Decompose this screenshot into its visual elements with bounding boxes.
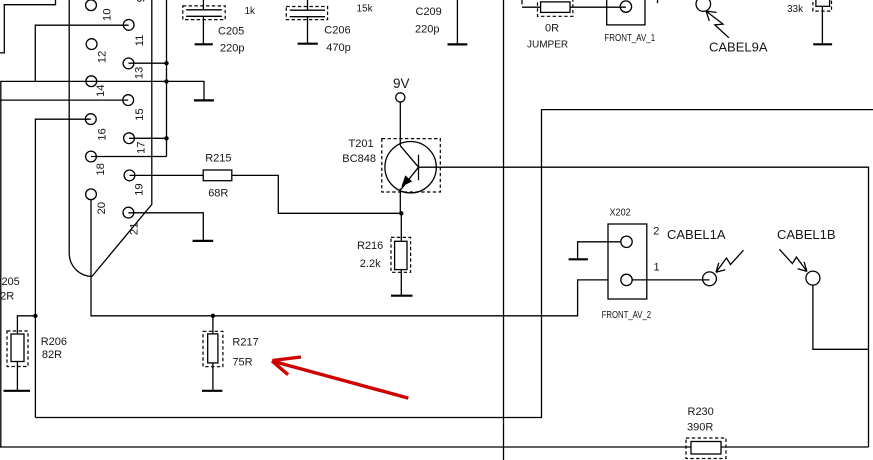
resistor 0R jumper	[541, 2, 570, 13]
svg-text:2.2k: 2.2k	[360, 258, 381, 270]
svg-text:CABEL9A: CABEL9A	[709, 39, 768, 54]
svg-text:20: 20	[96, 202, 108, 215]
wire pin18	[91, 156, 167, 158]
pin 14	[86, 76, 97, 87]
resistor R216	[395, 241, 407, 269]
wire bottom line with R230	[0, 446, 869, 448]
wire top-left step (cut at top and left edges)	[0, 0, 56, 53]
wire bottom rail / big loop to top right	[35, 110, 873, 418]
wire C209 to ground (cap cut off above)	[456, 0, 458, 44]
svg-text:19: 19	[134, 183, 146, 196]
svg-text:16: 16	[96, 128, 108, 141]
svg-text:470p: 470p	[326, 42, 350, 54]
svg-text:11: 11	[134, 35, 146, 47]
junction dot (pin17/x166)	[164, 136, 168, 140]
svg-text:JUMPER: JUMPER	[527, 40, 568, 51]
transistor T201 emitter segment	[401, 167, 419, 189]
svg-text:13: 13	[133, 67, 145, 80]
wire stub right of FRONT_AV_1 (cut)	[657, 0, 659, 3]
ground bar (X202 pin2)	[569, 258, 588, 260]
junction dot (pin13/x166)	[164, 61, 168, 65]
wire X202 pin2 to ground	[578, 242, 621, 259]
svg-text:82R: 82R	[42, 349, 62, 361]
junction dot (R206 tap)	[33, 314, 37, 318]
CABEL1A bolt arrow	[716, 250, 744, 272]
svg-text:390R: 390R	[687, 422, 713, 434]
svg-text:FRONT_AV_2: FRONT_AV_2	[602, 310, 652, 321]
pin 18	[86, 151, 97, 162]
svg-text:15: 15	[134, 108, 146, 121]
svg-text:BC848: BC848	[342, 153, 376, 165]
junction dot (pin14 net/x166)	[164, 79, 168, 83]
ground bar (R217)	[202, 390, 222, 392]
resistor R215	[203, 170, 232, 181]
CABEL9A terminal circle (cut at top)	[696, 0, 711, 11]
wire vertical net V1 (full height, cut by crop)	[503, 0, 505, 460]
svg-text:9: 9	[135, 0, 147, 2]
svg-text:C206: C206	[324, 25, 350, 37]
svg-text:220p: 220p	[220, 43, 244, 55]
wire into 0R jumper	[522, 6, 541, 8]
ground bar (C205)	[195, 43, 213, 45]
svg-text:14: 14	[95, 84, 107, 97]
resistor R206	[11, 334, 24, 362]
svg-text:R230: R230	[688, 406, 714, 418]
wire R217 top	[212, 316, 214, 334]
wire pin19 to R215	[130, 174, 204, 176]
wire pin17	[129, 137, 167, 139]
svg-text:2: 2	[653, 226, 659, 238]
svg-text:68R: 68R	[208, 187, 228, 199]
wire pin13	[129, 62, 167, 64]
wire CABEL1B down to right loop	[813, 285, 869, 349]
svg-text:X202: X202	[610, 208, 632, 219]
SCART connector outline	[69, 0, 152, 276]
junction dot (R217 tap)	[211, 314, 215, 318]
svg-text:FRONT_AV_1: FRONT_AV_1	[604, 33, 655, 44]
X202 pin 1 circle	[621, 274, 632, 285]
svg-text:CABEL1B: CABEL1B	[777, 227, 836, 242]
wire R217 to ground	[212, 363, 214, 390]
wire 0R to FRONT_AV_1	[570, 6, 626, 8]
transistor T201 dashed box	[382, 139, 441, 192]
svg-text:12: 12	[96, 51, 108, 64]
wire R206 to ground	[16, 362, 18, 391]
svg-text:C209: C209	[416, 6, 442, 18]
transistor T201 circle	[385, 142, 436, 193]
supply 9V terminal	[396, 93, 405, 102]
pin 13	[123, 58, 134, 69]
wire 9V to collector	[399, 102, 401, 146]
svg-text:1: 1	[654, 262, 660, 274]
svg-text:21: 21	[128, 223, 140, 236]
wire pin14/ground net horizontal	[1, 81, 204, 100]
pin 12	[86, 39, 97, 50]
pin 11	[123, 20, 134, 31]
svg-text:R216: R216	[357, 240, 383, 252]
svg-text:0R: 0R	[545, 23, 559, 35]
wire emitter to R216	[400, 213, 402, 241]
wire R206 branch	[17, 316, 35, 334]
wire emitter down	[399, 189, 401, 214]
wire R215 to emitter node	[232, 175, 401, 213]
pin 17	[124, 133, 135, 144]
svg-text:75R: 75R	[232, 357, 252, 369]
svg-text:R217: R217	[232, 337, 258, 349]
ground bar (pin14 net)	[194, 99, 214, 101]
ground bar (33k)	[813, 43, 832, 45]
svg-text:10: 10	[102, 9, 114, 22]
CABEL9A bolt arrow	[706, 11, 729, 38]
red annotation arrow	[272, 357, 408, 398]
resistor R230	[691, 442, 721, 455]
pin 15	[123, 95, 134, 106]
wire X202 pin1 to CABEL1A	[632, 279, 709, 281]
pin 20	[86, 189, 97, 200]
wire pin20 down and long horizontal to X202 pin1	[91, 200, 608, 316]
wire left-edge vertical (cut at image edge)	[0, 81, 2, 447]
connector X202 box	[608, 224, 647, 299]
pin 19	[124, 170, 135, 181]
svg-text:18: 18	[95, 163, 107, 176]
svg-text:T201: T201	[349, 138, 374, 150]
wire base to right edge loop	[419, 167, 869, 447]
svg-text:C205: C205	[218, 25, 244, 37]
resistor 33k (cut at top)	[816, 0, 830, 6]
capacitor C205	[186, 0, 222, 44]
wire R216 to ground	[400, 270, 402, 296]
svg-text:33k: 33k	[787, 4, 804, 15]
wire pin15 to left edge	[0, 99, 128, 101]
capacitor C206	[290, 0, 325, 43]
svg-text:9V: 9V	[393, 76, 410, 91]
resistor R217	[208, 334, 218, 363]
FRONT_AV_1 pin circle	[620, 1, 631, 12]
svg-text:R205: R205	[0, 276, 20, 288]
svg-text:17: 17	[136, 141, 148, 154]
ground bar (R216)	[391, 295, 413, 297]
wire junction vertical x166 (cut at top)	[166, 0, 168, 157]
svg-text:R206: R206	[41, 336, 67, 348]
svg-text:15k: 15k	[357, 4, 374, 15]
junction dot (emitter node)	[399, 211, 403, 215]
CABEL1B bolt arrow	[779, 249, 807, 271]
wire pin21 to ground	[128, 213, 203, 241]
transistor T201 collector segment	[400, 146, 418, 168]
svg-text:R215: R215	[205, 152, 231, 164]
svg-text:CABEL1A: CABEL1A	[667, 227, 726, 242]
X202 pin 2 circle	[621, 236, 632, 247]
ground bar (C206)	[298, 43, 318, 45]
svg-text:82R: 82R	[0, 291, 14, 303]
wire pin16 down left side to bottom rail	[35, 119, 90, 417]
svg-text:1k: 1k	[245, 6, 257, 17]
svg-text:220p: 220p	[415, 24, 439, 36]
wire pin11 branch	[35, 25, 128, 81]
CABEL1A terminal circle	[703, 272, 717, 286]
CABEL1B terminal circle	[806, 271, 820, 285]
ground bar (C209)	[448, 43, 468, 45]
pin 10	[86, 0, 97, 11]
pin 16	[85, 114, 96, 125]
wire stub above 0R (cut component)	[521, 0, 523, 4]
wire 33k to ground	[821, 6, 823, 44]
connector FRONT_AV_1 box (cut at top)	[607, 0, 645, 25]
ground bar (R206)	[4, 390, 31, 392]
ground bar (pin21)	[193, 240, 214, 242]
transistor T201 base bar	[418, 155, 420, 181]
transistor T201 emitter arrow	[401, 175, 412, 187]
pin 21	[123, 207, 134, 218]
